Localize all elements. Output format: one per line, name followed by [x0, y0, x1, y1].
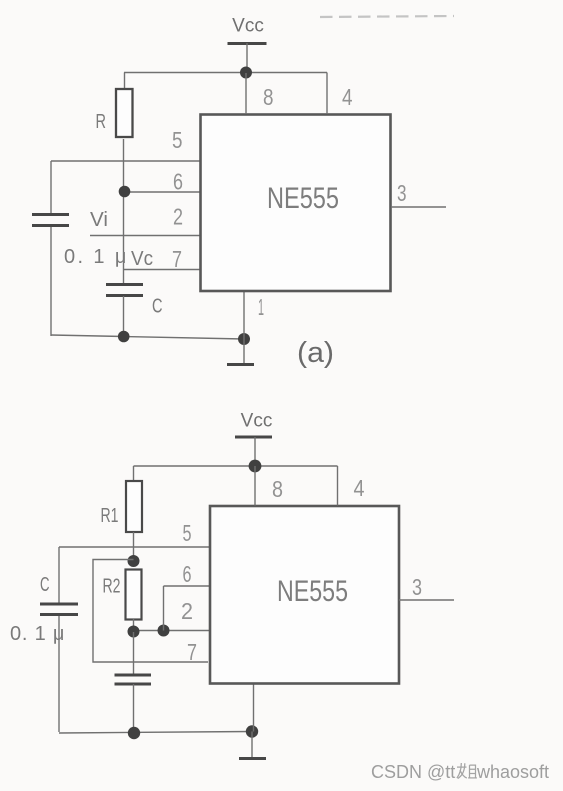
svg-text:2: 2: [173, 204, 183, 230]
svg-text:C: C: [40, 574, 50, 596]
svg-text:0. 1 μ: 0. 1 μ: [10, 623, 65, 645]
svg-text:CSDN @tt: CSDN @tt: [371, 762, 455, 782]
svg-text:(a): (a): [297, 337, 334, 369]
svg-text:NE555: NE555: [277, 575, 348, 608]
svg-text:2: 2: [181, 598, 193, 624]
svg-text:R2: R2: [103, 576, 121, 598]
svg-text:7: 7: [187, 639, 197, 665]
svg-text:3: 3: [412, 574, 422, 600]
svg-text:Vi: Vi: [90, 209, 108, 231]
svg-text:Vcc: Vcc: [241, 411, 273, 432]
svg-text:7: 7: [172, 246, 182, 272]
svg-text:4: 4: [354, 475, 365, 501]
svg-text:3: 3: [397, 180, 407, 206]
svg-text:5: 5: [172, 127, 183, 153]
svg-text:6: 6: [183, 561, 192, 587]
svg-text:0. 1 μ: 0. 1 μ: [64, 246, 129, 268]
svg-text:whaosoft: whaosoft: [476, 762, 549, 782]
svg-text:4: 4: [342, 84, 353, 110]
svg-text:1: 1: [258, 294, 264, 320]
svg-text:5: 5: [183, 520, 192, 546]
svg-text:R: R: [96, 111, 107, 133]
svg-text:R1: R1: [101, 505, 119, 527]
svg-text:Vcc: Vcc: [232, 16, 264, 37]
svg-text:NE555: NE555: [267, 182, 339, 215]
svg-text:C: C: [152, 296, 163, 318]
svg-text:8: 8: [263, 84, 274, 110]
svg-text:6: 6: [173, 169, 183, 195]
svg-text:Vc: Vc: [131, 248, 153, 270]
svg-text:8: 8: [272, 476, 283, 502]
